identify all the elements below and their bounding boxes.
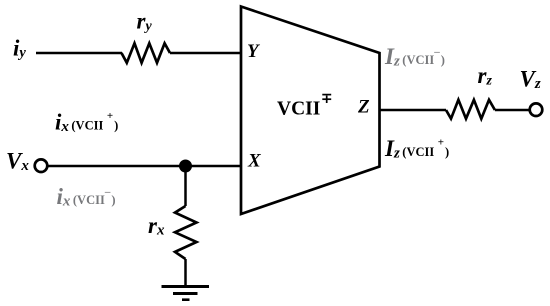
terminal Vx (open circle): [35, 159, 48, 172]
svg-text:ix(VCII–): ix(VCII–): [57, 184, 116, 210]
svg-text:rz: rz: [478, 63, 493, 89]
wire pin Z to resistor rz: [380, 109, 447, 112]
svg-text:ry: ry: [137, 9, 153, 35]
svg-text:X: X: [247, 150, 262, 171]
wire Vx to pin X: [49, 165, 242, 168]
resistor ry zigzag: [122, 43, 171, 63]
wire resistor ry to pin Y: [170, 52, 241, 55]
svg-text:Y: Y: [247, 41, 261, 62]
svg-text:Vx: Vx: [6, 149, 29, 175]
resistor rz zigzag: [446, 100, 495, 119]
wire iy input to resistor ry: [36, 52, 122, 55]
terminal Vz (open circle): [530, 103, 543, 116]
junction node at X wire: [179, 160, 192, 173]
svg-text:Iz(VCII+): Iz(VCII+): [384, 136, 449, 162]
svg-text:rx: rx: [148, 213, 165, 239]
ground symbol: [162, 287, 210, 300]
svg-text:Iz(VCII–): Iz(VCII–): [384, 44, 445, 70]
svg-text:Z: Z: [357, 97, 370, 118]
wire junction to resistor rx: [184, 166, 187, 206]
svg-text:VCII: VCII: [277, 99, 320, 120]
superscript mp sign of VCII block: [322, 95, 331, 103]
svg-text:iy: iy: [13, 35, 26, 61]
svg-text:ix(VCII+): ix(VCII+): [55, 110, 118, 136]
wire resistor rx to ground: [184, 259, 187, 287]
wire resistor rz to terminal Vz: [495, 109, 530, 112]
VCII block U1 (trapezoid body): [241, 7, 380, 215]
resistor rx zigzag (vertical): [175, 206, 197, 259]
svg-text:Vz: Vz: [520, 67, 541, 93]
